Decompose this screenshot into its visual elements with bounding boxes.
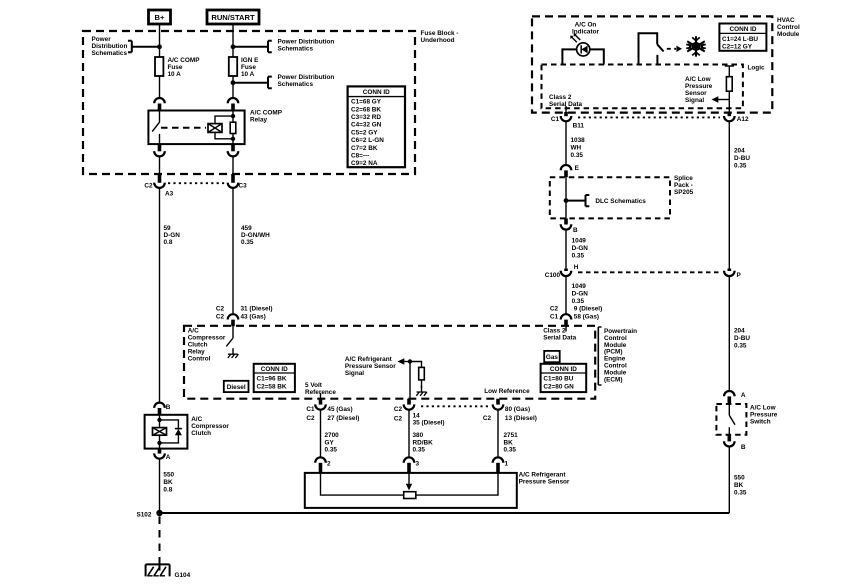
svg-text:C1: C1 [551,116,560,123]
svg-text:0.8: 0.8 [164,239,173,246]
connector C2 A3 [144,174,173,198]
arrow actuator [676,46,682,52]
node junction IGN E fuse tap [231,80,236,85]
svg-text:Serial Data: Serial Data [543,335,576,342]
connector pin 2 sensor [315,457,331,473]
svg-text:Switch: Switch [750,419,771,426]
label Diesel box [224,381,249,392]
svg-text:Signal: Signal [685,97,704,104]
svg-text:C3: C3 [239,183,248,190]
node S102 [136,510,162,519]
svg-text:Pressure Sensor: Pressure Sensor [519,479,570,486]
connector A pressure switch [724,391,746,404]
svg-text:459: 459 [241,225,252,232]
svg-text:A/C Refrigerant: A/C Refrigerant [519,472,567,479]
ground G104 [146,561,191,579]
connector C2 80(Gas) 13(Diesel) [483,399,537,422]
svg-text:C2=58 BK: C2=58 BK [257,384,287,391]
svg-text:0.35: 0.35 [504,446,517,453]
connector C2/C2 31(Diesel) 43(Gas) [216,306,273,327]
svg-text:13 (Diesel): 13 (Diesel) [505,415,537,422]
ground PCM internal [416,386,427,396]
wire serial data out of HVAC [565,106,567,112]
A/C low pressure switch dashed box [716,404,777,435]
coil clutch [153,415,167,449]
snowflake icon [686,36,706,56]
connector relay pin 3 (left bottom) [154,144,165,156]
wire B+ to fuse [159,24,161,57]
svg-text:0.35: 0.35 [572,253,585,260]
svg-text:58 (Gas): 58 (Gas) [574,314,599,321]
svg-text:CONN ID: CONN ID [730,26,757,33]
wire 204 D-BU 0.35 lower [729,276,750,391]
node splice junction [564,198,569,203]
svg-text:0.35: 0.35 [572,298,585,305]
svg-text:C8=---: C8=--- [351,153,369,160]
svg-text:S102: S102 [136,512,151,519]
switch clutch relay driver [226,326,233,346]
svg-text:C1=24 L-BU: C1=24 L-BU [722,36,758,43]
CONN ID table HVAC [719,24,766,51]
svg-text:CONN ID: CONN ID [261,366,288,373]
svg-text:D-BU: D-BU [734,155,750,162]
PCM/ECM dashed box [184,326,595,399]
svg-text:80 (Gas): 80 (Gas) [505,406,530,413]
connector C2/C2 14 35(Diesel) [394,399,445,427]
wire sensor signal into PCM [409,362,411,399]
wire 2751 BK 0.35 [498,410,518,458]
connector C1/C2 45(Gas) 27(Diesel) [306,399,359,422]
svg-text:BK: BK [163,479,173,486]
svg-text:A/C Refrigerant: A/C Refrigerant [345,356,393,363]
label Gas box [544,351,560,362]
wire IGN E fuse to relay [232,76,234,98]
svg-text:B: B [741,444,746,451]
svg-text:CONN ID: CONN ID [550,366,577,373]
svg-text:Pressure: Pressure [685,83,713,90]
svg-text:C100: C100 [545,272,561,279]
connector relay pin 2 (right top) [228,98,239,111]
DLC schematics bracket [566,195,646,206]
svg-text:550: 550 [163,472,174,479]
connector relay pin 1 (left top) [154,98,165,111]
wire dotted connector row C2-C3 [168,182,225,184]
svg-text:B: B [166,404,171,411]
svg-text:A/C: A/C [188,328,199,335]
label PCM bracket [598,327,637,385]
svg-text:B: B [573,227,578,234]
svg-text:35 (Diesel): 35 (Diesel) [413,419,445,426]
svg-text:2: 2 [327,461,331,468]
node relay coil bottom [231,137,235,141]
svg-text:59: 59 [164,225,172,232]
svg-text:Compressor: Compressor [188,335,226,342]
label A/C compressor clutch relay control [188,328,226,363]
svg-text:A: A [741,392,746,399]
connector C3 [228,174,247,190]
resistor PCM pull-up [410,362,424,389]
svg-text:Schematics: Schematics [92,50,128,57]
wire dotted connector row C2-C2 [421,405,490,407]
node clutch bottom [157,441,161,445]
svg-text:10 A: 10 A [168,71,182,78]
svg-text:D-GN: D-GN [572,245,589,252]
wire dashed S102 to G104 [159,517,161,563]
svg-text:0.35: 0.35 [413,446,426,453]
svg-text:0.35: 0.35 [734,343,747,350]
connector E [561,165,580,177]
wire 1049 D-GN 0.35 lower [566,276,588,314]
switch A/C request [639,33,664,64]
connector P [724,269,742,280]
svg-text:Distribution: Distribution [92,43,128,50]
svg-text:D-GN: D-GN [164,232,181,239]
wire 204 D-BU 0.35 upper [729,121,750,268]
arrow A/C low pressure sensor signal [685,76,729,104]
svg-text:Power Distribution: Power Distribution [278,74,335,81]
svg-text:5 Volt: 5 Volt [305,382,323,389]
svg-text:Pressure Sensor: Pressure Sensor [345,363,396,370]
svg-text:C1=80 BU: C1=80 BU [543,376,573,383]
svg-text:C5=2 GY: C5=2 GY [351,129,378,136]
svg-text:Low Reference: Low Reference [484,388,530,395]
svg-text:A: A [166,454,171,461]
CONN ID table PCM gas [541,364,587,392]
diode clutch suppression [160,420,182,443]
svg-text:HVAC: HVAC [777,17,795,24]
svg-text:C2: C2 [144,183,153,190]
svg-text:3: 3 [416,461,420,468]
svg-text:Clutch: Clutch [191,430,211,437]
connector A clutch [154,449,171,461]
connector C1 B11 [551,112,585,130]
svg-text:B11: B11 [573,123,585,130]
svg-text:Logic: Logic [748,65,765,72]
svg-text:C2=12 GY: C2=12 GY [722,44,753,51]
svg-text:Pack -: Pack - [674,182,693,189]
relay coil K1 [208,124,222,133]
svg-text:A/C Low: A/C Low [685,76,711,83]
connector B splice out [561,218,578,234]
svg-text:Control: Control [777,24,800,31]
connector B pressure switch [724,435,746,451]
svg-text:Class 2: Class 2 [549,94,572,101]
svg-text:2751: 2751 [504,432,519,439]
svg-text:C2: C2 [216,306,225,313]
relay switch [152,111,159,145]
connector C2/C1 9(Diesel) 58(Gas) [550,306,602,327]
logic dashed box [542,65,765,109]
resistor relay internal [230,111,236,145]
svg-text:Compressor: Compressor [191,423,229,430]
svg-text:Power: Power [92,36,112,43]
svg-text:C4=32 GN: C4=32 GN [351,122,382,129]
svg-text:B+: B+ [155,13,165,22]
svg-text:0.8: 0.8 [163,487,172,494]
svg-text:C1=68 GY: C1=68 GY [351,99,382,106]
svg-text:BK: BK [734,482,744,489]
connector relay pin 5 (right bottom) [228,144,239,156]
power distribution schematics bracket right lower [233,74,334,88]
label class 2 serial data HVAC [549,94,582,108]
svg-text:2700: 2700 [325,432,340,439]
wire relay coil loop [215,116,233,139]
svg-text:RUN/START: RUN/START [211,13,255,22]
potentiometer sensor internal [321,473,499,499]
svg-text:C2=80 GN: C2=80 GN [543,384,574,391]
label 5 volt reference [305,382,336,396]
svg-text:C1: C1 [550,314,559,321]
svg-text:C2=68 BK: C2=68 BK [351,106,381,113]
node B+ feed box [149,10,171,24]
wire 380 RD/BK 0.35 [409,410,433,458]
wire splice internal [565,177,567,218]
svg-text:43 (Gas): 43 (Gas) [241,314,266,321]
svg-text:14: 14 [413,412,421,419]
svg-text:C2: C2 [394,406,403,413]
fuse block underhood dashed box [83,31,415,174]
svg-text:Diesel: Diesel [227,384,246,391]
svg-text:204: 204 [734,148,745,155]
svg-text:C2: C2 [216,314,225,321]
power distribution schematics bracket left [92,36,160,57]
wire relay to C2 [159,157,161,175]
indicator A/C On label [572,22,599,36]
wire 459 D-GN/WH 0.35 [233,188,270,314]
svg-text:Class 2: Class 2 [543,328,566,335]
svg-text:E: E [575,165,580,172]
svg-text:A/C COMP: A/C COMP [250,110,283,117]
svg-text:A12: A12 [737,116,749,123]
svg-text:31 (Diesel): 31 (Diesel) [241,306,273,313]
A/C compressor clutch box [145,415,230,449]
connector C100 H [545,264,579,279]
wire dashed connector row C100-P [578,271,720,273]
svg-text:D-GN: D-GN [572,291,589,298]
svg-text:C2: C2 [306,415,315,422]
relay A/C COMP box [148,110,282,145]
svg-text:0.35: 0.35 [241,239,254,246]
svg-text:D-BU: D-BU [734,335,750,342]
svg-text:Gas: Gas [546,354,559,361]
connector pin 1 sensor [493,457,509,473]
svg-text:1049: 1049 [572,283,587,290]
svg-text:A3: A3 [165,191,174,198]
wire RUN/START to fuse [232,24,234,57]
svg-text:45 (Gas): 45 (Gas) [327,406,352,413]
node clutch top [157,418,161,422]
svg-text:A/C COMP: A/C COMP [168,57,201,64]
node junction B+/fuse [157,44,162,49]
CONN ID table fuse block [348,86,405,167]
CONN ID table PCM diesel [254,364,295,392]
svg-text:C1=96 BK: C1=96 BK [257,376,287,383]
label class 2 serial data PCM [543,326,576,341]
svg-text:Clutch: Clutch [188,342,208,349]
svg-text:BK: BK [504,439,514,446]
svg-text:Control: Control [604,335,627,342]
svg-text:Control: Control [188,356,211,363]
svg-text:Module: Module [777,31,800,38]
svg-text:IGN E: IGN E [241,57,259,64]
svg-text:Relay: Relay [250,117,267,124]
wire ground bus S102 to switch [160,512,730,514]
svg-text:SP205: SP205 [674,189,694,196]
wire 550 BK 0.35 [729,447,747,513]
node junction RUN-START/fuse [231,44,236,49]
fuse IGN E 10A [229,57,259,78]
svg-text:C1: C1 [306,406,315,413]
LED A/C On indicator [570,33,590,56]
svg-text:10 A: 10 A [241,71,255,78]
svg-text:Fuse Block -: Fuse Block - [421,30,459,37]
svg-text:Schematics: Schematics [278,81,314,88]
svg-text:1049: 1049 [572,238,587,245]
svg-text:RD/BK: RD/BK [413,439,434,446]
svg-text:A/C On: A/C On [575,22,597,29]
node relay coil top [231,114,235,118]
svg-text:Fuse: Fuse [168,64,183,71]
relay actuator dashed link [161,127,206,129]
switch low pressure [729,404,735,435]
svg-text:Sensor: Sensor [685,90,707,97]
svg-text:WH: WH [571,145,582,152]
svg-text:CONN ID: CONN ID [363,89,390,96]
svg-text:9 (Diesel): 9 (Diesel) [574,306,602,313]
svg-text:C2: C2 [550,306,559,313]
svg-text:G104: G104 [175,572,191,579]
svg-text:C2: C2 [394,415,403,422]
svg-text:D-GN/WH: D-GN/WH [241,232,270,239]
svg-text:GY: GY [325,439,335,446]
svg-text:C7=2 BK: C7=2 BK [351,145,378,152]
node signal tap [408,359,412,363]
svg-text:Control: Control [604,363,627,370]
svg-text:C9=2 NA: C9=2 NA [351,160,378,167]
svg-text:Power Distribution: Power Distribution [278,39,335,46]
svg-text:Underhood: Underhood [421,37,455,44]
svg-text:Schematics: Schematics [278,46,314,53]
arrow A/C refrigerant pressure sensor signal [345,356,410,377]
svg-text:Pressure: Pressure [750,412,778,419]
fuse A/C COMP 10A [155,57,200,78]
svg-text:C3=32 RD: C3=32 RD [351,114,381,121]
wire 2700 GY 0.35 [321,410,340,458]
svg-text:(PCM): (PCM) [604,349,622,356]
connector A12 [724,112,749,123]
wire LED branch [562,49,603,64]
svg-text:27 (Diesel): 27 (Diesel) [327,415,359,422]
node RUN/START feed box [207,10,259,24]
svg-text:0.35: 0.35 [734,163,747,170]
wire 1049 D-GN 0.35 upper [566,230,588,269]
svg-text:Signal: Signal [345,370,364,377]
splice pack SP205 dashed box [550,175,694,219]
svg-text:P: P [737,272,742,279]
svg-text:0.35: 0.35 [571,152,584,159]
svg-text:380: 380 [413,432,424,439]
svg-text:A/C Low: A/C Low [750,405,776,412]
switch actuator dashes [667,48,676,50]
wire 550 BK 0.8 [160,459,175,513]
power distribution schematics bracket right upper [233,39,334,53]
svg-text:1: 1 [505,461,509,468]
svg-text:C2: C2 [483,415,492,422]
HVAC control module dashed box [532,16,800,112]
svg-text:(ECM): (ECM) [604,377,622,384]
svg-text:0.35: 0.35 [325,446,338,453]
svg-text:H: H [574,264,579,271]
svg-text:DLC Schematics: DLC Schematics [595,198,646,205]
A/C refrigerant pressure sensor box [305,472,570,508]
svg-text:Splice: Splice [674,175,693,182]
wire dotted connector row C1-A12 [578,116,720,118]
svg-text:A/C: A/C [191,416,202,423]
connector pin 3 sensor [404,457,420,473]
wire A/C COMP fuse to relay [159,76,161,98]
connector B clutch [154,403,171,415]
wire relay to C3 [232,157,234,175]
wire 1038 WH 0.35 [566,121,585,165]
svg-text:C6=2 L-GN: C6=2 L-GN [351,137,384,144]
svg-text:204: 204 [734,328,745,335]
svg-text:1038: 1038 [571,137,586,144]
svg-text:550: 550 [734,475,745,482]
svg-text:Relay: Relay [188,349,205,356]
svg-text:0.35: 0.35 [734,489,747,496]
wire 5V ref inside PCM [320,393,322,399]
resistor HVAC pull-up [725,66,734,112]
wire 59 D-GN 0.8 [160,188,181,403]
svg-text:Fuse: Fuse [241,64,256,71]
ground clutch relay driver internal [228,348,239,358]
